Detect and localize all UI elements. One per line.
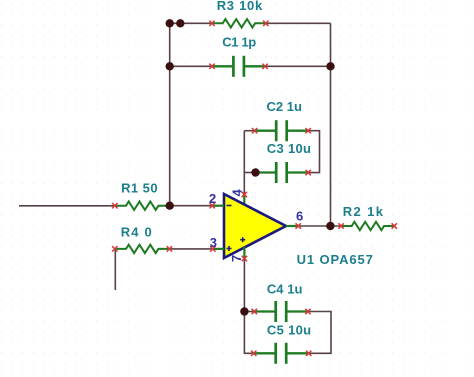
x mark pin 7 xyxy=(242,256,247,261)
wire: pin 7 down to C4 junction and C5 xyxy=(244,259,253,354)
resistor R1 xyxy=(115,202,170,210)
x mark C4 left xyxy=(252,309,257,314)
wire: right feedback vertical xyxy=(330,23,332,226)
svg-text:R3 10k: R3 10k xyxy=(217,0,263,13)
wire: R1 out to pin 2 xyxy=(170,205,213,207)
x mark R1 right xyxy=(167,203,172,208)
resistor R4 xyxy=(115,245,170,253)
junction dot output node xyxy=(326,222,334,230)
svg-text:3: 3 xyxy=(210,235,217,250)
svg-text:R4 0: R4 0 xyxy=(121,224,152,239)
wire: output pin6 to R2 xyxy=(298,225,341,227)
x mark pin 6 xyxy=(296,223,301,228)
op-amp pin 6 stub xyxy=(286,225,298,227)
x mark C3 right xyxy=(306,170,311,175)
x mark pin 2 xyxy=(210,203,215,208)
svg-text:6: 6 xyxy=(296,208,303,223)
x mark R2 left xyxy=(338,223,343,228)
x mark R4 left xyxy=(112,246,117,251)
junction dot top-left b xyxy=(176,19,184,27)
svg-text:C5 10u: C5 10u xyxy=(267,323,311,338)
wire: C4 left junction to pin xyxy=(244,311,254,313)
op-amp U1 triangle xyxy=(224,194,286,258)
junction dot C1 left xyxy=(166,62,174,70)
svg-text:C3 10u: C3 10u xyxy=(267,141,311,156)
x mark C1 right xyxy=(262,64,267,69)
wire: C2/C3 left vertical down to pin 4 xyxy=(243,131,245,195)
op-amp plus mark (inner) xyxy=(240,237,245,242)
x mark R4 right xyxy=(167,246,172,251)
x mark C3 left xyxy=(253,170,258,175)
x mark C2 left xyxy=(252,128,257,133)
resistor R3 xyxy=(212,19,267,27)
wire: C2/C3 right loop xyxy=(308,131,319,173)
svg-text:4: 4 xyxy=(230,189,245,197)
svg-text:R2 1k: R2 1k xyxy=(343,204,384,219)
x mark R1 left xyxy=(112,203,117,208)
op-amp pin 4 stub xyxy=(243,195,245,207)
wire: stub below R4 left pin xyxy=(114,249,116,290)
wire: C1 row left segment xyxy=(170,65,212,67)
x mark C2 right xyxy=(306,128,311,133)
svg-text:C2 1u: C2 1u xyxy=(267,99,303,114)
capacitor C1 xyxy=(211,56,266,77)
op-amp minus mark xyxy=(227,205,232,207)
svg-text:R1 50: R1 50 xyxy=(121,181,158,196)
junction dot R1 output node xyxy=(166,202,174,210)
x mark C1 left xyxy=(209,64,214,69)
op-amp pin 7 stub xyxy=(243,247,245,259)
wire: left feedback vertical xyxy=(169,23,171,205)
x mark C4 right xyxy=(305,309,310,314)
x mark R3 left xyxy=(209,21,214,26)
wire: C1 row right segment xyxy=(265,65,330,67)
junction dot C4 left xyxy=(240,307,248,315)
capacitor C2 xyxy=(254,120,309,141)
svg-text:2: 2 xyxy=(209,191,216,206)
op-amp pin 3 stub xyxy=(213,248,224,250)
wire: C4/C5 right loop xyxy=(308,312,331,354)
capacitor C5 xyxy=(254,343,309,364)
x mark C5 right xyxy=(306,351,311,356)
op-amp plus mark (pin3) xyxy=(227,246,232,251)
svg-text:C1 1p: C1 1p xyxy=(222,35,256,50)
wire: C2 left corner segment xyxy=(244,130,254,132)
wire: input line to R1 xyxy=(19,205,115,207)
x mark R3 right xyxy=(263,21,268,26)
wire: jog to C3 left junction xyxy=(244,172,255,174)
junction dot C1 right xyxy=(326,62,334,70)
wire: R4 out to pin 3 xyxy=(169,248,212,250)
x mark C5 left xyxy=(251,351,256,356)
wire: top row right segment (R3 to right vertical) xyxy=(266,22,331,24)
wire: top row left segment (to R3) xyxy=(170,22,212,24)
svg-text:U1 OPA657: U1 OPA657 xyxy=(297,252,373,267)
op-amp pin 2 stub xyxy=(212,205,224,207)
junction dot top-left a xyxy=(166,19,174,27)
x mark R2 right xyxy=(392,223,397,228)
x mark pin 3 xyxy=(210,246,215,251)
junction dot C3 left xyxy=(251,168,259,176)
x mark pin 4 xyxy=(242,192,247,197)
capacitor C4 xyxy=(254,301,309,322)
resistor R2 xyxy=(341,222,396,230)
capacitor C3 xyxy=(254,162,309,183)
svg-text:7: 7 xyxy=(229,255,244,262)
svg-text:C4 1u: C4 1u xyxy=(267,281,303,296)
